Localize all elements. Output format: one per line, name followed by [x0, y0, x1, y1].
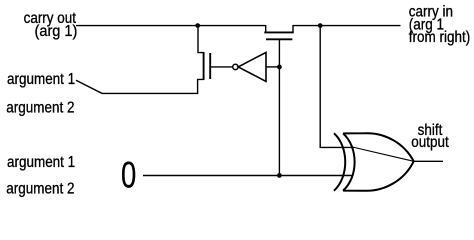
- junction dot at carry-out / Q1 drain: [195, 23, 200, 28]
- junction dot at carry-in branch: [318, 23, 323, 28]
- wire carry-in branch down to XOR upper input: [320, 26, 354, 148]
- inverter U1 triangle: [238, 52, 266, 81]
- wire vertical net inverter input to bottom wire: [278, 67, 280, 175]
- svg-text:argument 1: argument 1: [7, 71, 75, 88]
- wire XOR upper input diagonal to output tip: [354, 147, 414, 161]
- XOR gate G1 input arc (detached): [334, 133, 345, 190]
- wire carry-out to Q2 (top left segment): [76, 25, 266, 27]
- inverter U1 bubble: [233, 64, 238, 69]
- svg-text:argument 2: argument 2: [6, 181, 74, 198]
- node shift output label: [411, 122, 448, 151]
- junction dot at bottom wire: [277, 173, 282, 178]
- svg-text:argument 1: argument 1: [7, 154, 75, 171]
- wire inverter input stub: [266, 66, 279, 68]
- svg-text:0: 0: [121, 155, 136, 196]
- transistor Q1 (vertical, gate on right): [204, 52, 211, 80]
- svg-text:(arg 1): (arg 1): [35, 22, 78, 40]
- svg-text:from right): from right): [409, 29, 470, 46]
- wire shift output: [414, 160, 443, 162]
- transistor Q2 (pass transistor, horizontal): [264, 25, 293, 67]
- junction dot at inverter input: [277, 65, 282, 70]
- node carry-out label: [24, 10, 78, 40]
- node carry-in label: [409, 4, 470, 47]
- wire Q2 to carry-in (top right segment): [293, 25, 401, 27]
- svg-text:output: output: [411, 134, 448, 151]
- wire constant 0 to XOR lower input: [143, 175, 353, 177]
- wire Q1 drain stub: [198, 26, 204, 53]
- XOR gate G1 body: [343, 133, 414, 191]
- wire Q1 source to argument-1: [76, 79, 204, 93]
- svg-text:argument 2: argument 2: [6, 100, 74, 117]
- wire Q1 gate lead: [210, 66, 233, 68]
